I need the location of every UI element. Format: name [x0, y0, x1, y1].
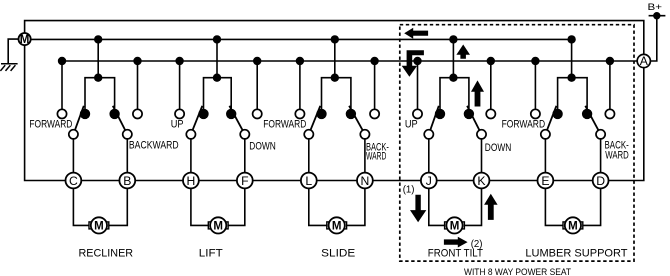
svg-text:M: M [94, 221, 104, 233]
contact RECLINER outer left (open) [57, 109, 66, 118]
junction on bus2 at FRONT TILT right [487, 57, 495, 65]
junction on bus1 at LUMBER SUPPORT [567, 35, 575, 43]
wire: LIFT switch bracket [204, 78, 232, 110]
junction on bus1 at FRONT TILT [449, 35, 457, 43]
wire: B to RECLINER motor [109, 188, 128, 225]
wire: C to RECLINER motor [73, 188, 89, 225]
wire: bus 2 (outer contact feed) [62, 60, 637, 62]
wire: bus1 drop to FRONT TILT switch bracket [452, 39, 454, 77]
wire: motor M1 down to connector row, then across to node A riser [25, 45, 644, 180]
connector pin J [421, 173, 437, 189]
contact LUMBER SUPPORT inner right (closed) [582, 109, 592, 119]
pivot LUMBER SUPPORT left [541, 130, 550, 139]
wire: LUMBER SUPPORT left pivot to connector E [544, 134, 546, 180]
svg-text:F: F [241, 174, 248, 188]
svg-text:UP: UP [405, 119, 418, 131]
wire: RECLINER switch bracket [85, 78, 115, 110]
svg-text:H: H [186, 174, 195, 188]
wire: bus1 drop to LIFT switch bracket [216, 39, 218, 77]
pivot RECLINER right [123, 130, 132, 139]
wire: bus2 drop to SLIDE left outer contact [299, 61, 301, 109]
wire: bus1 drop to LUMBER SUPPORT switch bracket [571, 39, 573, 77]
switch lever RECLINER right [113, 106, 128, 135]
wire: LUMBER SUPPORT switch bracket [558, 78, 588, 110]
arrow: current flow up through front tilt switch [471, 80, 484, 106]
motor LUMBER SUPPORT [563, 217, 583, 233]
switch lever RECLINER left [73, 106, 83, 135]
svg-text:J: J [426, 174, 432, 188]
wire: J to FRONT TILT motor [429, 188, 445, 225]
wire: bus2 drop to FRONT TILT right outer contact [490, 61, 492, 109]
node: SLIDE bracket junction [331, 74, 339, 82]
junction on bus2 at RECLINER left [58, 57, 66, 65]
svg-text:M: M [450, 221, 460, 233]
motor RECLINER [89, 217, 109, 233]
contact SLIDE inner left (closed) [316, 109, 326, 119]
contact FRONT TILT inner left (closed) [435, 109, 445, 119]
wire: LIFT right pivot to connector F [244, 134, 246, 180]
svg-text:SLIDE: SLIDE [321, 248, 355, 260]
wire: H to LIFT motor [191, 188, 208, 225]
wire: LUMBER SUPPORT right pivot to connector D [600, 134, 602, 180]
pivot FRONT TILT left [424, 130, 433, 139]
pivot LUMBER SUPPORT right [596, 130, 605, 139]
wire: bus2 drop to LIFT right outer contact [256, 61, 258, 109]
switch lever SLIDE left [309, 106, 321, 135]
junction on bus2 at FRONT TILT left [413, 57, 421, 65]
pivot LIFT right [240, 130, 249, 139]
contact LUMBER SUPPORT outer right (open) [605, 109, 614, 118]
wire: motor M1 left lead to ground [8, 39, 18, 64]
node: LIFT bracket junction [213, 74, 221, 82]
svg-text:FORWARD: FORWARD [502, 119, 546, 131]
connector pin N [357, 173, 373, 189]
node: RECLINER bracket junction [94, 74, 102, 82]
svg-text:N: N [360, 174, 369, 188]
contact RECLINER inner left (closed) [80, 109, 90, 119]
wire: LIFT left pivot to connector H [190, 134, 192, 180]
wire: SLIDE switch bracket [322, 78, 351, 110]
svg-text:(1): (1) [403, 183, 415, 195]
contact LIFT outer left (open) [175, 109, 184, 118]
svg-text:E: E [541, 174, 549, 188]
node A (battery feed) [637, 54, 650, 67]
junction on bus2 at LIFT left [175, 57, 183, 65]
svg-text:M: M [213, 221, 223, 233]
contact LUMBER SUPPORT outer left (open) [531, 109, 540, 118]
pivot SLIDE left [304, 130, 313, 139]
contact LIFT outer right (open) [253, 109, 262, 118]
arrow: current flow up to bus1 at front tilt [456, 45, 470, 59]
switch lever FRONT TILT left [429, 106, 439, 135]
contact FRONT TILT outer right (open) [486, 109, 495, 118]
junction on bus2 at SLIDE left [296, 57, 304, 65]
connector pin D [593, 173, 609, 189]
wire: bus2 drop to FRONT TILT left outer contact [417, 61, 419, 109]
junction on bus2 at LUMBER SUPPORT left [531, 57, 539, 65]
wire: bus2 drop to LUMBER SUPPORT right outer contact [609, 61, 611, 109]
svg-text:FORWARD: FORWARD [263, 119, 306, 131]
svg-text:BACKWARD: BACKWARD [129, 140, 179, 152]
svg-text:A: A [640, 54, 649, 68]
arrow: current flow right through front tilt motor [444, 237, 468, 248]
arrow: current flow left along bus1 [404, 28, 428, 39]
wire: SLIDE left pivot to connector L [308, 134, 310, 180]
contact RECLINER outer right (open) [133, 109, 142, 118]
wire: SLIDE right pivot to connector N [364, 134, 366, 180]
pivot RECLINER left [69, 130, 78, 139]
svg-text:FORWARD: FORWARD [29, 119, 72, 131]
wire: bus 1 (switch common feed) [31, 38, 572, 40]
wire: RECLINER left pivot to connector C [72, 134, 74, 180]
contact LIFT inner left (closed) [198, 109, 208, 119]
svg-text:UP: UP [171, 119, 184, 131]
arrow: bent current flow down at bus2 [402, 50, 424, 77]
wire: bus2 drop to LIFT left outer contact [179, 61, 181, 109]
junction on bus2 at LUMBER SUPPORT right [606, 57, 614, 65]
wire: D to LUMBER SUPPORT motor [583, 188, 601, 225]
svg-text:K: K [477, 174, 485, 188]
pivot FRONT TILT right [477, 130, 486, 139]
svg-text:D: D [596, 174, 605, 188]
motor LIFT [208, 217, 228, 233]
connector pin C [66, 173, 82, 189]
ground [0, 64, 17, 71]
contact RECLINER inner right (closed) [109, 109, 119, 119]
junction on bus2 at RECLINER right [133, 57, 141, 65]
switch lever LUMBER SUPPORT left [545, 106, 556, 135]
wire: bus2 drop to SLIDE right outer contact [374, 61, 376, 109]
contact LUMBER SUPPORT inner left (closed) [552, 109, 562, 119]
junction on bus2 at LIFT right [253, 57, 261, 65]
junction on bus1 at RECLINER [94, 35, 102, 43]
svg-text:DOWN: DOWN [485, 142, 512, 154]
contact SLIDE outer right (open) [370, 109, 379, 118]
node: LUMBER SUPPORT bracket junction [567, 74, 575, 82]
switch lever LIFT left [191, 106, 202, 135]
junction on bus1 at LIFT [213, 35, 221, 43]
svg-text:(2): (2) [471, 238, 483, 250]
wire: E to LUMBER SUPPORT motor [545, 188, 563, 225]
wire: bus1 drop to SLIDE switch bracket [334, 39, 336, 77]
svg-text:M: M [332, 221, 342, 233]
svg-text:C: C [69, 174, 78, 188]
wire: RECLINER right pivot to connector B [126, 134, 128, 180]
contact FRONT TILT inner right (closed) [464, 109, 474, 119]
svg-text:WITH 8 WAY POWER SEAT: WITH 8 WAY POWER SEAT [464, 267, 571, 276]
svg-text:RECLINER: RECLINER [79, 248, 134, 260]
svg-text:WARD: WARD [366, 151, 386, 163]
connector pin B [119, 173, 135, 189]
switch lever LUMBER SUPPORT right [585, 106, 600, 135]
connector pin L [301, 173, 317, 189]
dashed box: 8-way power seat option [400, 25, 634, 261]
connector pin E [538, 173, 554, 189]
arrow: current flow down from pin J [410, 195, 426, 223]
switch lever SLIDE right [349, 106, 365, 135]
wire: FRONT TILT switch bracket [440, 78, 469, 110]
wire: K to FRONT TILT motor [464, 188, 481, 225]
connector pin K [474, 173, 490, 189]
contact SLIDE outer left (open) [295, 109, 304, 118]
svg-text:M: M [568, 221, 578, 233]
switch lever FRONT TILT right [467, 106, 481, 135]
svg-text:B: B [123, 174, 131, 188]
wire: bus2 drop to LUMBER SUPPORT left outer contact [534, 61, 536, 109]
svg-text:M: M [20, 34, 30, 46]
wire: top feed line from motor M1 to node A [25, 21, 644, 55]
junction on bus1 at SLIDE [331, 35, 339, 43]
contact FRONT TILT outer left (open) [413, 109, 422, 118]
svg-text:L: L [305, 174, 312, 188]
node: FRONT TILT bracket junction [449, 74, 457, 82]
connector pin F [237, 173, 253, 189]
pivot SLIDE right [360, 130, 369, 139]
svg-text:LUMBER SUPPORT: LUMBER SUPPORT [525, 248, 627, 260]
contact LIFT inner right (closed) [226, 109, 236, 119]
wire: FRONT TILT left pivot to connector J [428, 134, 430, 180]
svg-text:B+: B+ [648, 2, 663, 13]
wire: B+ lead down to node A [650, 16, 656, 61]
svg-text:WARD: WARD [605, 150, 629, 162]
pivot LIFT left [186, 130, 195, 139]
switch lever LIFT right [229, 106, 244, 135]
connector pin H [183, 173, 199, 189]
wire: L to SLIDE motor [309, 188, 327, 225]
wire: bus2 drop to RECLINER left outer contact [61, 61, 63, 109]
motor SLIDE [327, 217, 347, 233]
wire: bus2 drop to RECLINER right outer contact [137, 61, 139, 109]
motor FRONT TILT [445, 217, 465, 233]
junction on bus2 at SLIDE right [370, 57, 378, 65]
svg-text:DOWN: DOWN [249, 141, 276, 153]
motor M1 (seat motor common) [19, 33, 31, 45]
wire: FRONT TILT right pivot to connector K [481, 134, 483, 180]
B+ terminal [649, 12, 666, 19]
wire: N to SLIDE motor [347, 188, 365, 225]
contact SLIDE inner right (closed) [346, 109, 356, 119]
wire: F to LIFT motor [228, 188, 245, 225]
arrow: current flow up to pin K [484, 194, 498, 220]
wire: bus1 drop to RECLINER switch bracket [97, 39, 99, 77]
svg-text:LIFT: LIFT [199, 248, 223, 260]
